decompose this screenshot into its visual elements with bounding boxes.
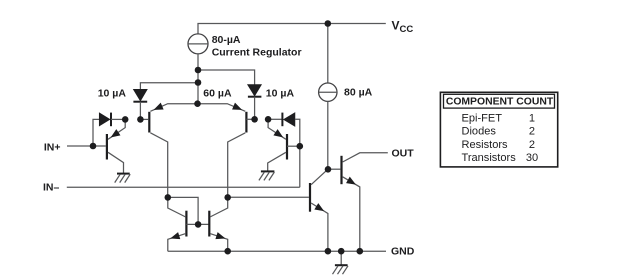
svg-text:IN+: IN+ bbox=[44, 141, 61, 153]
svg-text:2: 2 bbox=[529, 126, 535, 138]
svg-text:COMPONENT COUNT: COMPONENT COUNT bbox=[446, 97, 554, 108]
svg-text:OUT: OUT bbox=[392, 148, 415, 160]
svg-text:10 µA: 10 µA bbox=[98, 88, 127, 100]
svg-text:80 µA: 80 µA bbox=[344, 87, 373, 99]
svg-text:GND: GND bbox=[391, 246, 415, 258]
svg-text:2: 2 bbox=[529, 139, 535, 151]
svg-text:Transistors: Transistors bbox=[462, 152, 517, 164]
svg-text:Current Regulator: Current Regulator bbox=[212, 47, 302, 59]
svg-text:V: V bbox=[392, 19, 400, 33]
svg-text:30: 30 bbox=[526, 152, 538, 164]
svg-text:Diodes: Diodes bbox=[462, 126, 497, 138]
svg-text:80-µA: 80-µA bbox=[212, 34, 241, 46]
svg-text:1: 1 bbox=[529, 112, 535, 124]
svg-text:60 µA: 60 µA bbox=[203, 88, 232, 100]
svg-text:IN–: IN– bbox=[43, 182, 60, 194]
svg-text:Resistors: Resistors bbox=[462, 139, 509, 151]
svg-text:Epi-FET: Epi-FET bbox=[462, 112, 503, 124]
svg-text:CC: CC bbox=[400, 24, 414, 35]
svg-text:10 µA: 10 µA bbox=[266, 88, 295, 100]
